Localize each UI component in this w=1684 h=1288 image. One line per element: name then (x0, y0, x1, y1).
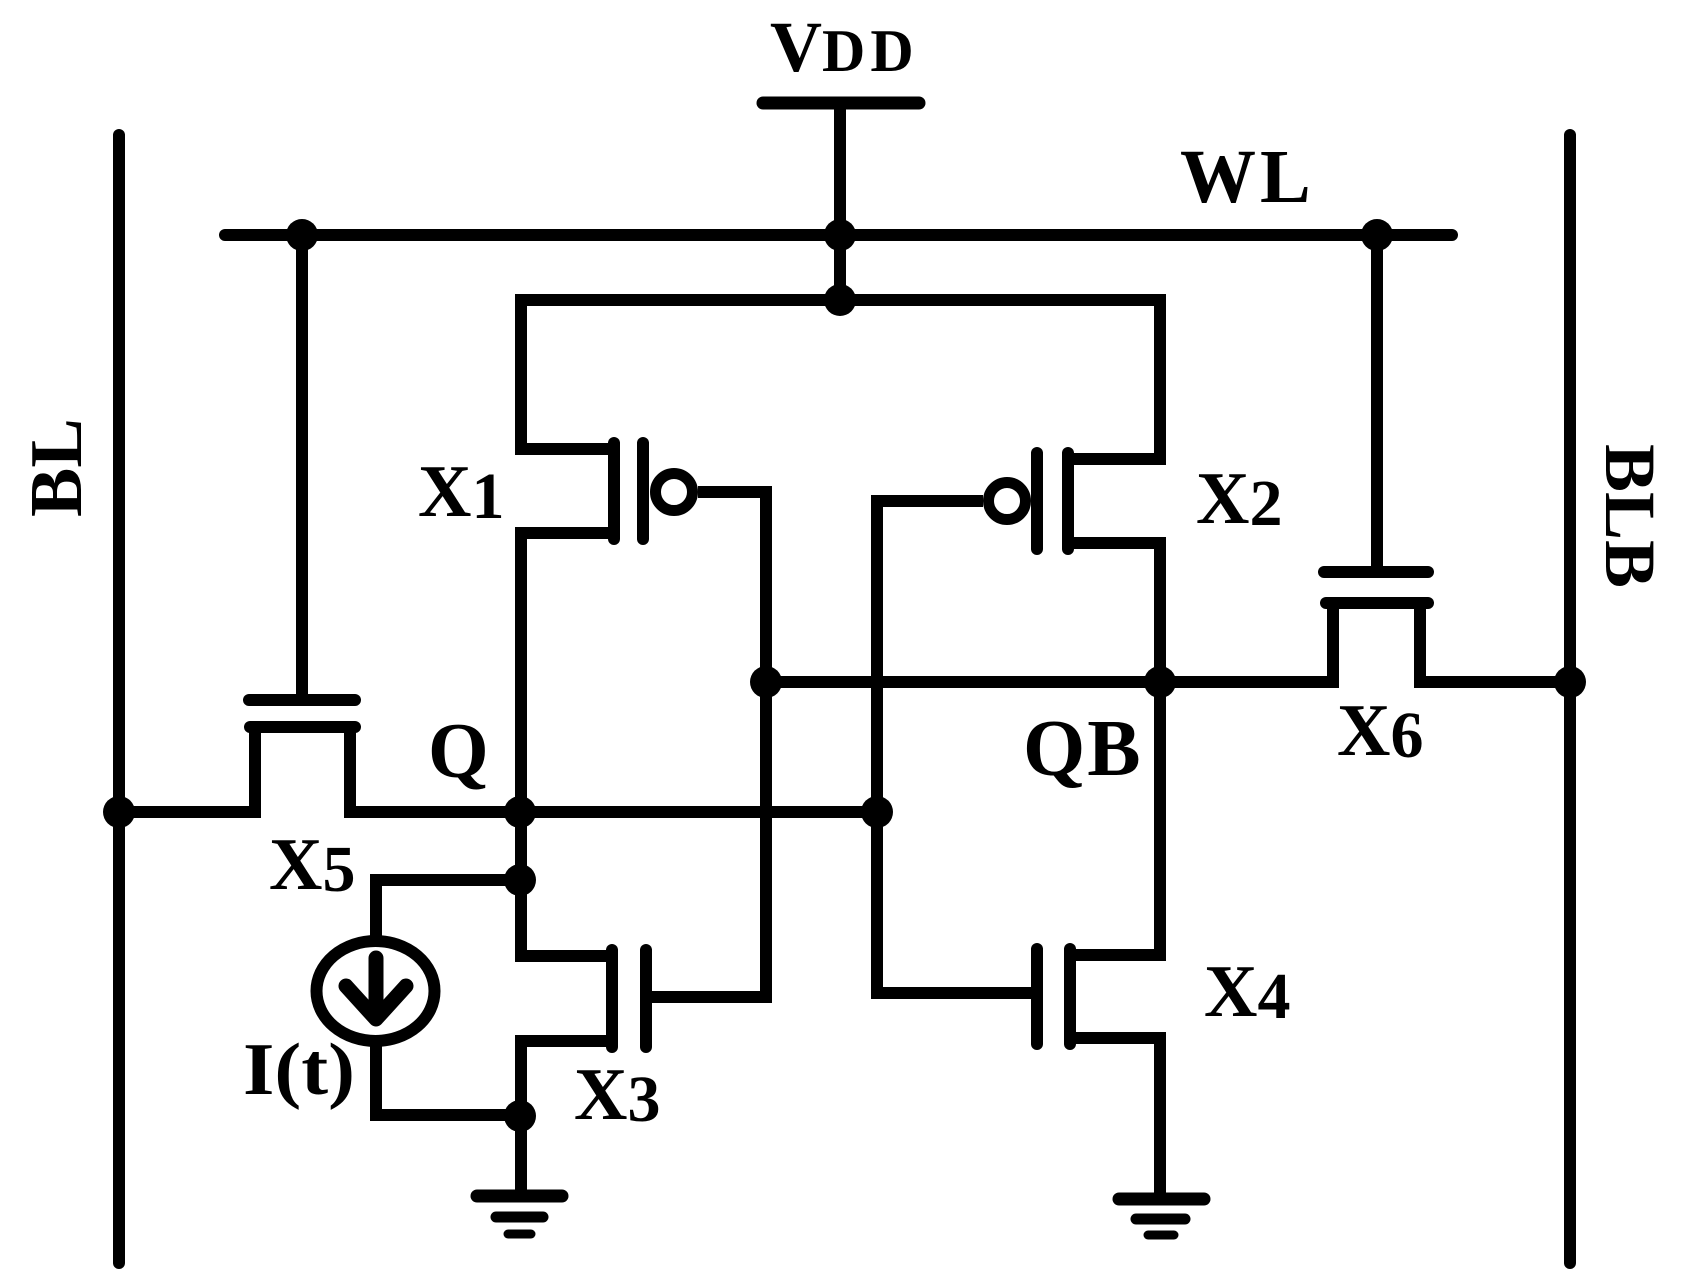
junction current source top and Q column (504, 864, 536, 896)
current source I(t) circle (317, 941, 435, 1041)
svg-text:VDD: VDD (770, 7, 919, 87)
ground symbol right bar2 (1136, 1214, 1185, 1225)
transistor X3 gate bar (640, 950, 652, 1047)
svg-text:BL: BL (16, 418, 98, 517)
transistor X1 gate bubble (656, 474, 693, 511)
ground symbol left bar3 (508, 1230, 531, 1239)
wire WL word line (225, 229, 1452, 241)
node Q junction (504, 796, 536, 828)
wire X5 gate from WL (296, 235, 308, 697)
svg-text:Q: Q (428, 707, 489, 794)
transistor X1 channel bar (608, 443, 620, 539)
junction VDD and rail (824, 284, 856, 316)
ground symbol right bar1 (1119, 1193, 1204, 1206)
transistor X5 channel bar (250, 721, 355, 733)
wire X2 gate to X4 gate (node Q side) (877, 501, 1037, 993)
transistor X4 channel bar (1064, 949, 1076, 1044)
svg-text:X4: X4 (1204, 951, 1290, 1033)
ground symbol left bar1 (477, 1190, 562, 1203)
junction BLB and X6 (1554, 666, 1586, 698)
svg-text:X3: X3 (574, 1054, 660, 1136)
wire X6 right terminal to BLB (1420, 603, 1570, 682)
wire X3 source to ground (521, 1041, 612, 1196)
wire X1 drain down to node Q and X3 drain (521, 533, 614, 956)
svg-text:BLB: BLB (1590, 444, 1670, 588)
svg-text:I(t): I(t) (243, 1029, 355, 1111)
power VDD bar (763, 97, 919, 110)
junction VDD and WL (824, 219, 856, 251)
transistor X6 channel bar (1326, 597, 1428, 609)
svg-text:X2: X2 (1196, 458, 1282, 540)
ground symbol right bar3 (1148, 1231, 1174, 1240)
junction current source bottom and ground column (504, 1100, 536, 1132)
svg-text:X1: X1 (418, 451, 504, 533)
current source arrow shaft (369, 958, 384, 1008)
wire X1 gate to X3 gate (node QB side) (652, 492, 766, 997)
wire current source bottom to ground column (376, 1045, 520, 1115)
wire X5 right terminal to node Q line (350, 727, 877, 812)
node QB junction (1144, 666, 1176, 698)
junction X5 gate and WL (286, 219, 318, 251)
wire X2 drain down to node QB and X4 drain (1068, 543, 1160, 955)
wire current source top to node Q column (376, 880, 520, 937)
junction Q line and X2-X4 gate wire (861, 796, 893, 828)
svg-text:QB: QB (1023, 705, 1143, 793)
transistor X1 gate bar (637, 443, 649, 539)
svg-text:X5: X5 (269, 824, 355, 906)
ground symbol left bar2 (496, 1212, 543, 1223)
svg-text:WL: WL (1180, 135, 1315, 219)
junction QB line and X1-X3 gate wire (750, 666, 782, 698)
transistor X2 gate bubble (989, 483, 1026, 520)
current source arrow head (346, 986, 406, 1019)
wire VDD rail to X1 and X2 sources (521, 300, 1160, 459)
wire X5 left terminal to BL (119, 727, 255, 812)
wire X6 gate from WL (1371, 235, 1383, 572)
wire QB line to X6 left terminal (766, 603, 1333, 682)
wire X4 source to ground (1070, 1038, 1160, 1199)
wire BL bit line (113, 135, 125, 1263)
junction X6 gate and WL (1361, 219, 1393, 251)
transistor X4 gate bar (1031, 949, 1043, 1044)
wire VDD stem (834, 103, 846, 300)
transistor X2 gate bar (1031, 453, 1043, 549)
junction BL and X5 (103, 796, 135, 828)
transistor X6 gate bar (1324, 566, 1428, 578)
wire BLB bit line (1564, 135, 1576, 1263)
transistor X2 channel bar (1062, 453, 1074, 549)
transistor X3 channel bar (606, 950, 618, 1047)
transistor X5 gate bar (249, 694, 355, 706)
svg-text:X6: X6 (1337, 690, 1423, 772)
